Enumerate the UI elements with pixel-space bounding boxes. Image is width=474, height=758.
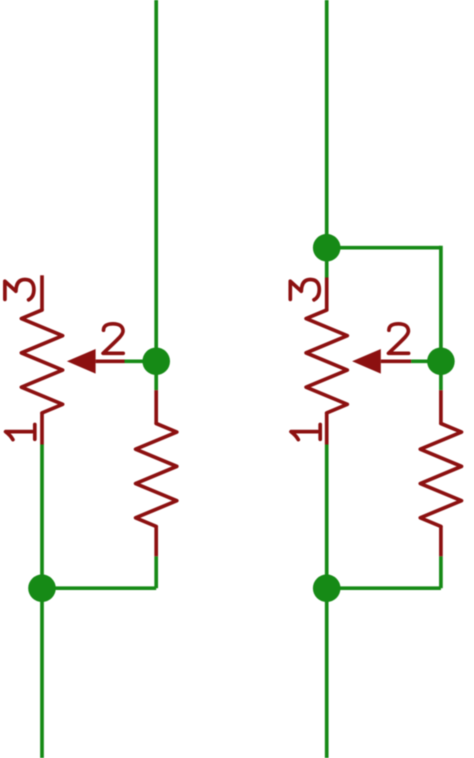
potentiometer P2 body (306, 278, 347, 445)
wire left wiper net segment (125, 359, 157, 363)
pin number 1 (P2) (291, 425, 320, 440)
potentiometer P2 wiper arrow (352, 349, 411, 374)
pin number 3 (P1) (5, 280, 34, 300)
junction dot E (right bottom node) (313, 574, 341, 602)
wire right top horizontal (327, 246, 441, 250)
potentiometer P1 body (21, 275, 62, 444)
pin number 1 (P1) (6, 425, 35, 440)
resistor R1 (136, 390, 177, 556)
junction dot D (right wiper node) (427, 348, 455, 376)
wire net N$2 vertical (right feed) (325, 0, 329, 278)
wire net N$1 vertical (left feed) (154, 0, 158, 361)
wire left bottom net vertical (pot side) (40, 445, 44, 758)
pin number 2 (P2) (389, 324, 409, 354)
junction dot C (right top node) (313, 234, 341, 262)
junction dot A (left wiper node) (142, 348, 170, 376)
wire left resistor bottom stub (green) (154, 556, 158, 588)
wire right bottom net vertical (pot side) (325, 445, 329, 758)
pin number 2 (P1) (103, 324, 123, 354)
wire left resistor top stub (green) (154, 361, 158, 390)
wire left bottom horizontal (42, 586, 156, 590)
resistor R2 (420, 390, 461, 556)
wire right wiper net segment (411, 359, 441, 363)
wire right bottom horizontal (327, 586, 441, 590)
wire right resistor bottom stub (green) (439, 556, 443, 588)
wire right resistor top stub (green) (439, 361, 443, 390)
junction dot B (left bottom node) (28, 574, 56, 602)
wire right branch vertical to wiper (439, 246, 443, 361)
pin number 3 (P2) (290, 280, 319, 300)
potentiometer P1 wiper arrow (67, 349, 125, 374)
